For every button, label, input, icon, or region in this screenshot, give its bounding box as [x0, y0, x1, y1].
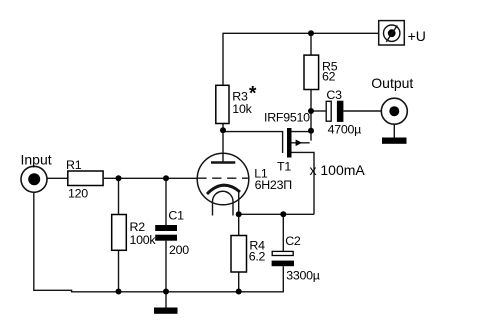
svg-text:R2: R2 — [130, 220, 146, 234]
svg-text:Output: Output — [371, 75, 413, 91]
svg-text:200: 200 — [169, 243, 189, 257]
svg-text:10k: 10k — [232, 102, 252, 116]
svg-text:4700µ: 4700µ — [328, 123, 362, 137]
svg-text:3300µ: 3300µ — [286, 269, 320, 283]
svg-text:T1: T1 — [277, 160, 291, 174]
svg-text:100k: 100k — [130, 233, 157, 247]
svg-text:120: 120 — [68, 186, 88, 200]
svg-text:6Н23П: 6Н23П — [255, 178, 292, 192]
svg-text:Input: Input — [21, 152, 52, 168]
svg-text:IRF9510: IRF9510 — [264, 110, 310, 124]
svg-text:R1: R1 — [66, 158, 82, 172]
svg-text:C2: C2 — [285, 234, 301, 248]
svg-text:x 100mA: x 100mA — [310, 162, 366, 178]
svg-text:62: 62 — [322, 70, 336, 84]
svg-text:C3: C3 — [326, 88, 342, 102]
svg-text:6.2: 6.2 — [249, 249, 266, 263]
svg-text:C1: C1 — [168, 209, 184, 223]
svg-text:+U: +U — [408, 28, 426, 44]
